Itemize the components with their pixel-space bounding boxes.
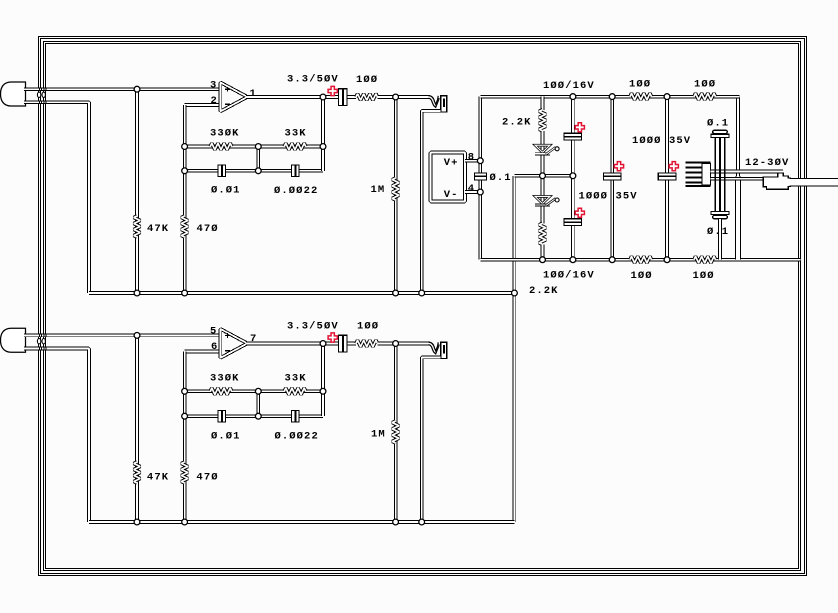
svg-text:1ØØ/16V: 1ØØ/16V xyxy=(543,270,595,282)
node V- xyxy=(664,257,670,263)
op-amp U1A xyxy=(220,82,247,111)
LED D2 xyxy=(535,196,559,205)
node fb xyxy=(182,388,188,394)
LED D1 xyxy=(535,145,559,154)
wire feedback mid link xyxy=(256,147,260,171)
node V+ xyxy=(664,94,670,100)
wire +V input from plug tip xyxy=(711,170,784,174)
svg-text:Ø.ØØ22: Ø.ØØ22 xyxy=(274,185,318,197)
wire 0.01 row xyxy=(185,414,259,418)
node fb xyxy=(182,168,188,174)
svg-text:1ØØ: 1ØØ xyxy=(630,270,652,282)
capacitor C1 0.01 xyxy=(218,165,227,178)
node U1B out xyxy=(320,341,326,347)
svg-text:33ØK: 33ØK xyxy=(210,373,240,385)
svg-text:33K: 33K xyxy=(284,128,306,140)
wire feedback right branch xyxy=(321,97,325,171)
wire 100/16V branch xyxy=(571,97,575,260)
svg-text:47Ø: 47Ø xyxy=(196,223,218,235)
svg-text:33K: 33K xyxy=(284,373,306,385)
node gnd xyxy=(182,519,188,525)
polarity mark C10 + xyxy=(614,162,623,171)
feedthrough capacitor C12 0.1 xyxy=(711,130,729,137)
wire 1000/35V branch xyxy=(610,97,614,260)
node gnd xyxy=(419,290,425,296)
svg-text:2: 2 xyxy=(210,95,217,107)
polarity mark C8 + xyxy=(575,123,584,132)
wire power cable xyxy=(790,179,838,187)
wire supply left vertical xyxy=(478,97,482,260)
capacitor C5 0.0022 xyxy=(291,410,300,423)
wire 1M R6 branch xyxy=(394,97,398,293)
node pin4 xyxy=(477,189,483,195)
node fb xyxy=(320,144,326,150)
wire J1 sleeve to ground rail xyxy=(422,111,441,293)
node gnd xyxy=(134,290,140,296)
node gnd xyxy=(134,519,140,525)
svg-text:47K: 47K xyxy=(147,223,169,235)
resistor R4 33K xyxy=(284,143,306,150)
node pin8 xyxy=(477,158,483,164)
output jack J1 xyxy=(429,96,447,113)
resistor R9 330K xyxy=(210,388,232,395)
power plug J3 12-30V xyxy=(763,173,790,189)
wire feedback left branch / R2 470 xyxy=(183,105,187,293)
resistor R15 100 xyxy=(630,93,652,100)
svg-text:1ØØ: 1ØØ xyxy=(356,74,378,86)
op-amp supply pins box U1 V+/V- xyxy=(431,153,466,202)
svg-text:1: 1 xyxy=(249,88,256,100)
op-amp U1B xyxy=(220,329,247,358)
wire 0.0022 row xyxy=(258,414,323,418)
wire V+ top rail xyxy=(480,95,739,99)
resistor R5 100 xyxy=(356,94,378,101)
wire 1M R12 branch xyxy=(394,344,398,523)
wire MIC2 to U1B pin5 xyxy=(24,334,220,338)
svg-text:3.3/5ØV: 3.3/5ØV xyxy=(287,320,339,332)
wire 330K row xyxy=(185,145,259,149)
svg-text:2.2K: 2.2K xyxy=(502,116,532,128)
resistor R13 2.2K xyxy=(539,110,546,131)
svg-text:2.2K: 2.2K xyxy=(529,285,559,297)
capacitor C3 3.3/50V xyxy=(338,88,348,106)
wire R13 to mid rail through D1 xyxy=(541,131,545,176)
wire mid rail to R14 through D2 xyxy=(541,176,545,224)
node V+ xyxy=(570,94,576,100)
svg-text:47K: 47K xyxy=(147,471,169,483)
wire feedback right branch xyxy=(321,344,325,417)
svg-text:6: 6 xyxy=(211,341,218,353)
border crossings at mic leads xyxy=(40,88,47,350)
svg-text:1M: 1M xyxy=(370,184,385,196)
wire 330K row xyxy=(185,389,259,393)
wire 12-30V input vertical xyxy=(736,97,740,260)
svg-text:47Ø: 47Ø xyxy=(196,471,218,483)
svg-text:3.3/5ØV: 3.3/5ØV xyxy=(287,74,339,86)
resistor R8 470 xyxy=(181,462,188,483)
feedthrough capacitor C13 0.1 xyxy=(711,211,729,218)
svg-text:V-: V- xyxy=(444,189,459,201)
wire C3 to R5 xyxy=(348,95,356,99)
capacitor C2 0.0022 xyxy=(291,165,300,178)
capacitor C8 100/16V xyxy=(564,133,583,141)
node fb xyxy=(255,413,261,419)
node V+ xyxy=(609,94,615,100)
node U1A out xyxy=(320,94,326,100)
resistor R3 330K xyxy=(210,143,232,150)
crossover hops xyxy=(37,92,40,97)
wire 33K row xyxy=(258,145,323,149)
wire to R13 xyxy=(541,97,545,110)
svg-text:1ØØ: 1ØØ xyxy=(357,320,379,332)
svg-text:1ØØ: 1ØØ xyxy=(629,78,651,90)
node V- xyxy=(540,257,546,263)
capacitor C4 0.01 xyxy=(218,410,227,423)
wire MIC1 to U1A pin3 xyxy=(24,87,220,91)
polarity mark C11 + xyxy=(669,162,678,171)
output jack J2 xyxy=(429,342,447,359)
node fb xyxy=(182,144,188,150)
node fb xyxy=(255,388,261,394)
ferrite feedthrough filter FB1 xyxy=(686,162,711,188)
svg-text:Ø.1: Ø.1 xyxy=(707,117,729,129)
wire R11 to jack J2 xyxy=(378,342,431,346)
resistor R11 100 xyxy=(356,340,378,347)
svg-text:1ØØ/16V: 1ØØ/16V xyxy=(543,80,595,92)
wire 47K R7 branch xyxy=(135,335,139,522)
wire top channel ground rail xyxy=(89,291,514,295)
capacitor C11 1000/35V xyxy=(658,173,677,181)
svg-text:4: 4 xyxy=(468,183,475,195)
wire U1A pin2 xyxy=(185,103,221,107)
svg-text:Ø.ØØ22: Ø.ØØ22 xyxy=(274,430,318,442)
wire pin 4 xyxy=(465,190,480,194)
node R11/1M xyxy=(393,341,399,347)
capacitor C10 1000/35V xyxy=(603,173,622,181)
node mid xyxy=(570,173,576,179)
svg-text:Ø.1: Ø.1 xyxy=(489,172,511,184)
wire feedback left branch / R8 470 xyxy=(183,352,187,523)
wire pin 8 xyxy=(465,159,480,163)
svg-text:3: 3 xyxy=(210,80,217,92)
node gnd xyxy=(419,519,425,525)
wire U1B pin6 xyxy=(185,350,221,354)
wire C6 to R11 xyxy=(348,342,356,346)
node MIC2/pin5 xyxy=(134,333,140,339)
svg-text:Ø.Ø1: Ø.Ø1 xyxy=(211,185,241,197)
node V- xyxy=(609,257,615,263)
wire bottom channel ground rail xyxy=(89,520,514,524)
svg-text:1ØØØ 35V: 1ØØØ 35V xyxy=(578,191,637,203)
svg-text:V+: V+ xyxy=(444,157,459,169)
wire 33K row xyxy=(258,389,323,393)
node V- xyxy=(570,257,576,263)
resistor R7 47K xyxy=(134,462,141,483)
wire R5 to jack J1 xyxy=(378,95,431,99)
wire 1000/35V branch 2 xyxy=(665,97,669,260)
feedthrough body lines xyxy=(715,138,724,212)
node R5/1M xyxy=(393,94,399,100)
wire return from plug sleeve xyxy=(711,177,764,181)
svg-text:Ø.Ø1: Ø.Ø1 xyxy=(211,430,241,442)
svg-text:1M: 1M xyxy=(371,429,386,441)
wire 0.0022 row xyxy=(258,169,323,173)
svg-text:7: 7 xyxy=(250,333,257,345)
wire mid reference rail xyxy=(514,174,573,178)
resistor R16 100 xyxy=(694,93,716,100)
svg-text:1ØØ: 1ØØ xyxy=(692,270,714,282)
polarity mark C6 + xyxy=(328,333,337,342)
resistor R6 1M xyxy=(392,178,399,200)
wire feedthrough ground lead xyxy=(718,219,722,260)
wire 0.01 row xyxy=(185,169,259,173)
node fb xyxy=(255,168,261,174)
svg-text:5: 5 xyxy=(210,326,217,338)
svg-text:1ØØØ 35V: 1ØØØ 35V xyxy=(632,135,691,147)
resistor R18 100 xyxy=(694,256,716,263)
capacitor C7 0.1 xyxy=(474,173,487,181)
resistor R2 470 xyxy=(181,216,188,237)
polarity mark C3 + xyxy=(328,86,337,95)
node gnd xyxy=(393,290,399,296)
node fb xyxy=(255,144,261,150)
wire 12-30V return vertical (wide) xyxy=(735,177,741,260)
node MIC1/pin3 xyxy=(134,86,140,92)
node gnd xyxy=(393,519,399,525)
svg-text:Ø.1: Ø.1 xyxy=(707,226,729,238)
microphone MIC2 xyxy=(1,328,26,352)
node mid xyxy=(540,173,546,179)
node fb xyxy=(320,388,326,394)
wire mid-reference vertical to channel grounds xyxy=(513,176,517,522)
wire R14 to V- rail xyxy=(541,244,545,259)
wire feedback mid link xyxy=(256,391,260,416)
wire U1A output xyxy=(246,95,338,99)
polarity mark C9 + xyxy=(575,208,584,217)
resistor R1 47K xyxy=(134,216,141,237)
resistor R14 2.2K xyxy=(539,223,546,244)
resistor R17 100 xyxy=(630,256,652,263)
capacitor C6 3.3/50V xyxy=(338,335,348,353)
wire MIC2 return to ground rail xyxy=(24,349,89,523)
wire U1B output xyxy=(246,342,338,346)
node gnd xyxy=(182,290,188,296)
wire V- bottom rail xyxy=(480,258,800,262)
svg-text:12-3ØV: 12-3ØV xyxy=(745,157,789,169)
capacitor C9 100/16V xyxy=(564,218,583,226)
node gnd xyxy=(512,290,518,296)
wire J2 sleeve to ground rail xyxy=(422,357,441,522)
svg-text:8: 8 xyxy=(468,151,475,163)
node fb xyxy=(182,413,188,419)
svg-text:1ØØ: 1ØØ xyxy=(694,78,716,90)
microphone MIC1 xyxy=(1,82,26,106)
wire 47K R1 branch xyxy=(135,89,139,293)
wire MIC1 return to ground rail xyxy=(24,102,89,293)
svg-text:33ØK: 33ØK xyxy=(210,128,240,140)
resistor R10 33K xyxy=(284,388,306,395)
resistor R12 1M xyxy=(392,421,399,443)
